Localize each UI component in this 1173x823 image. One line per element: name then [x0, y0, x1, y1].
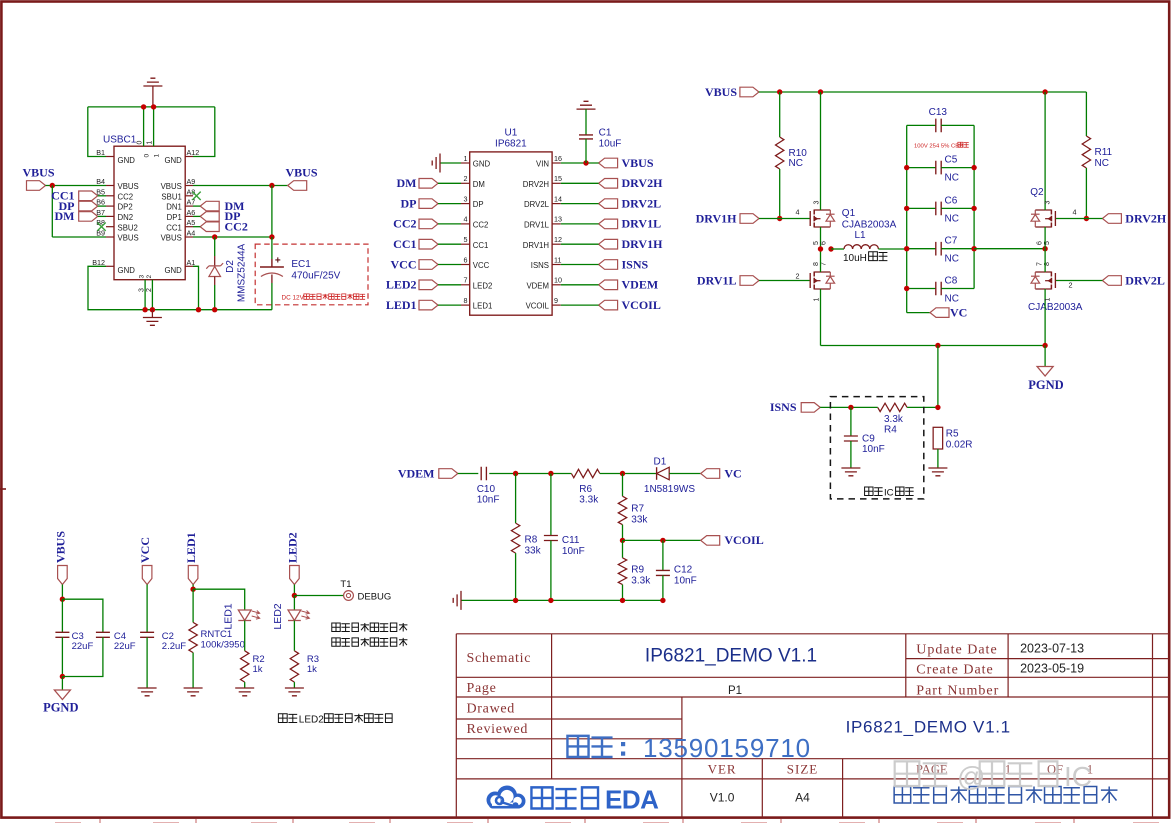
svg-text:VBUS: VBUS — [705, 85, 737, 99]
svg-text:VBUS: VBUS — [118, 234, 139, 243]
svg-text:B12: B12 — [92, 258, 105, 267]
svg-text:GND: GND — [118, 266, 136, 275]
svg-text:DEBUG: DEBUG — [358, 592, 392, 603]
svg-text:VBUS: VBUS — [22, 166, 54, 180]
svg-text:R4: R4 — [884, 424, 897, 435]
svg-text:USBC1: USBC1 — [103, 135, 137, 146]
svg-text:VCOIL: VCOIL — [526, 302, 550, 311]
svg-text:CC2: CC2 — [473, 221, 489, 230]
svg-text:VBUS: VBUS — [285, 166, 317, 180]
svg-text:2: 2 — [146, 288, 153, 292]
svg-text:P1: P1 — [728, 685, 742, 697]
svg-text:2: 2 — [464, 174, 468, 183]
svg-text:33k: 33k — [631, 515, 648, 526]
svg-text:CC2: CC2 — [225, 220, 248, 234]
svg-text:0: 0 — [144, 154, 151, 158]
svg-text:11: 11 — [554, 255, 561, 264]
svg-text:13590159710: 13590159710 — [643, 733, 811, 763]
svg-text:LED2: LED2 — [286, 532, 300, 563]
svg-text:EC1: EC1 — [291, 259, 311, 270]
svg-text:5: 5 — [1044, 241, 1051, 245]
svg-text:A8: A8 — [187, 187, 196, 196]
svg-text:C11: C11 — [562, 535, 580, 546]
svg-text:VDEM: VDEM — [622, 278, 659, 292]
svg-text:LED2: LED2 — [386, 278, 417, 292]
svg-text:C9: C9 — [862, 434, 875, 445]
svg-text:GND: GND — [473, 160, 491, 169]
svg-text:3: 3 — [139, 275, 146, 279]
svg-text:4: 4 — [1073, 208, 1077, 217]
svg-text:6: 6 — [821, 241, 828, 245]
svg-text:470uF/25V: 470uF/25V — [291, 270, 340, 281]
svg-text:B1: B1 — [96, 148, 105, 157]
svg-text:3: 3 — [139, 288, 146, 292]
svg-text:DRV2L: DRV2L — [622, 196, 662, 210]
svg-text:NC: NC — [945, 254, 959, 265]
svg-text:VCC: VCC — [391, 257, 417, 271]
svg-text:PGND: PGND — [43, 701, 78, 715]
svg-text:CC2: CC2 — [118, 192, 134, 201]
svg-text:10uF: 10uF — [599, 139, 622, 150]
svg-text:IP6821_DEMO V1.1: IP6821_DEMO V1.1 — [645, 646, 817, 667]
svg-text:A4: A4 — [187, 229, 196, 238]
svg-text:7: 7 — [821, 262, 828, 266]
svg-text:R9: R9 — [631, 565, 644, 576]
svg-text:VER: VER — [708, 762, 737, 777]
svg-text:DM: DM — [55, 209, 75, 223]
svg-text:14: 14 — [554, 194, 562, 203]
svg-text:A1: A1 — [187, 258, 196, 267]
svg-text:13: 13 — [554, 215, 562, 224]
svg-text:Q2: Q2 — [1030, 187, 1044, 198]
svg-text:DP1: DP1 — [167, 213, 182, 222]
svg-text:1: 1 — [814, 298, 821, 302]
svg-text:IC: IC — [884, 488, 894, 499]
svg-text:T1: T1 — [340, 579, 351, 590]
svg-text:D2: D2 — [225, 260, 236, 273]
svg-text:IP6821_DEMO V1.1: IP6821_DEMO V1.1 — [846, 718, 1011, 737]
svg-text:L1: L1 — [854, 230, 866, 241]
svg-text:VDEM: VDEM — [526, 281, 549, 290]
svg-text:16: 16 — [554, 154, 562, 163]
svg-text:+: + — [275, 256, 281, 267]
svg-text:Part Number: Part Number — [916, 684, 999, 699]
svg-text:A6: A6 — [187, 208, 196, 217]
svg-text:LED1: LED1 — [473, 302, 493, 311]
svg-text:CC1: CC1 — [473, 241, 489, 250]
svg-text:C8: C8 — [945, 276, 958, 287]
svg-text:10nF: 10nF — [862, 444, 885, 455]
svg-text:LED2: LED2 — [473, 281, 493, 290]
svg-text:DRV2L: DRV2L — [1125, 273, 1165, 287]
svg-text:NC: NC — [945, 213, 959, 224]
svg-text:3.3k: 3.3k — [884, 414, 904, 425]
svg-text:A9: A9 — [187, 177, 196, 186]
svg-text:VCC: VCC — [138, 537, 152, 563]
svg-text:10nF: 10nF — [477, 495, 500, 506]
svg-text:C7: C7 — [945, 236, 958, 247]
svg-text:VC: VC — [724, 466, 741, 480]
svg-text:8: 8 — [464, 296, 468, 305]
svg-text:MMSZ5244A: MMSZ5244A — [237, 243, 248, 302]
svg-text:5: 5 — [464, 235, 468, 244]
svg-text:2: 2 — [146, 275, 153, 279]
svg-text:C6: C6 — [945, 195, 958, 206]
svg-text:VBUS: VBUS — [161, 234, 182, 243]
svg-text:3: 3 — [1045, 201, 1052, 205]
svg-text:DN2: DN2 — [118, 213, 134, 222]
svg-text:DRV1H: DRV1H — [696, 211, 738, 225]
svg-text:C1: C1 — [599, 127, 612, 138]
svg-text:DRV1L: DRV1L — [622, 217, 662, 231]
svg-text:100k/3950: 100k/3950 — [201, 640, 245, 651]
svg-text:VIN: VIN — [536, 160, 549, 169]
svg-text:EDA: EDA — [605, 785, 659, 815]
svg-text:12: 12 — [554, 235, 562, 244]
svg-text:6: 6 — [464, 255, 468, 264]
svg-text:1k: 1k — [253, 664, 263, 675]
svg-text:2023-05-19: 2023-05-19 — [1020, 662, 1084, 676]
svg-text:DP: DP — [473, 200, 484, 209]
svg-text:Q1: Q1 — [842, 208, 856, 219]
svg-text:2: 2 — [796, 272, 800, 281]
svg-text:A4: A4 — [795, 791, 810, 805]
svg-text:22uF: 22uF — [114, 641, 136, 652]
svg-text:3: 3 — [464, 194, 468, 203]
svg-text:DRV2H: DRV2H — [523, 180, 549, 189]
svg-text:7: 7 — [1037, 262, 1044, 266]
svg-text:2.2uF: 2.2uF — [162, 641, 186, 652]
svg-text:R8: R8 — [525, 535, 538, 546]
svg-text:2: 2 — [1069, 281, 1073, 290]
svg-text:NC: NC — [789, 158, 803, 169]
svg-text:U1: U1 — [505, 127, 518, 138]
svg-text:2023-07-13: 2023-07-13 — [1020, 642, 1084, 656]
svg-text:DP2: DP2 — [118, 203, 133, 212]
svg-text:GND: GND — [164, 156, 182, 165]
svg-text:VDEM: VDEM — [398, 466, 435, 480]
svg-text:DRV2H: DRV2H — [1125, 211, 1167, 225]
svg-text:LED1: LED1 — [223, 603, 235, 629]
svg-text:DC 12V: DC 12V — [282, 295, 305, 302]
svg-text:4: 4 — [464, 215, 468, 224]
svg-text:C12: C12 — [674, 565, 693, 576]
svg-text:10: 10 — [554, 276, 562, 285]
svg-text:C5: C5 — [945, 155, 958, 166]
svg-text:DRV2L: DRV2L — [524, 200, 550, 209]
svg-text:1: 1 — [147, 141, 154, 145]
svg-text:A5: A5 — [187, 218, 196, 227]
svg-text:VBUS: VBUS — [622, 156, 654, 170]
svg-text:DRV1H: DRV1H — [523, 241, 549, 250]
svg-text:VCOIL: VCOIL — [622, 298, 661, 312]
svg-text:3.3k: 3.3k — [631, 576, 651, 587]
svg-text:CJAB2003A: CJAB2003A — [842, 220, 897, 231]
svg-text:DN1: DN1 — [166, 203, 182, 212]
svg-text:DRV2H: DRV2H — [622, 176, 664, 190]
svg-text:VBUS: VBUS — [118, 182, 139, 191]
svg-text:10nF: 10nF — [562, 546, 585, 557]
svg-text:5: 5 — [813, 241, 820, 245]
svg-text:CJAB2003A: CJAB2003A — [1028, 302, 1083, 313]
svg-text:ISNS: ISNS — [770, 400, 797, 414]
svg-text:Update Date: Update Date — [916, 643, 997, 658]
svg-text:LED2: LED2 — [299, 715, 324, 726]
svg-text:CC2: CC2 — [393, 217, 416, 231]
svg-text:22uF: 22uF — [72, 641, 94, 652]
svg-text:VBUS: VBUS — [161, 182, 182, 191]
svg-text:NC: NC — [945, 173, 959, 184]
svg-text:PGND: PGND — [1028, 378, 1063, 392]
svg-text:0.02R: 0.02R — [946, 440, 973, 451]
svg-text:R11: R11 — [1095, 147, 1113, 158]
svg-text:Reviewed: Reviewed — [467, 722, 529, 737]
svg-text:A12: A12 — [187, 148, 200, 157]
svg-text:3.3k: 3.3k — [579, 495, 599, 506]
svg-text:R5: R5 — [946, 429, 959, 440]
svg-text:3: 3 — [814, 201, 821, 205]
svg-text:Create Date: Create Date — [916, 663, 993, 678]
svg-text:R7: R7 — [631, 504, 644, 515]
svg-text:SBU1: SBU1 — [161, 192, 181, 201]
svg-text:1: 1 — [464, 154, 468, 163]
svg-text:1N5819WS: 1N5819WS — [644, 484, 695, 495]
svg-text:VBUS: VBUS — [54, 531, 68, 563]
svg-text:DRV1L: DRV1L — [697, 273, 737, 287]
svg-text:LED1: LED1 — [184, 532, 198, 563]
svg-text:DP: DP — [401, 196, 417, 210]
svg-text:15: 15 — [554, 174, 562, 183]
svg-text:NC: NC — [945, 294, 959, 305]
svg-text:33k: 33k — [525, 546, 542, 557]
svg-text:GND: GND — [118, 156, 136, 165]
svg-text:VCOIL: VCOIL — [724, 533, 763, 547]
svg-text:IC: IC — [1064, 761, 1092, 792]
svg-text:SIZE: SIZE — [787, 762, 818, 777]
svg-text:8: 8 — [813, 262, 820, 266]
svg-text:IP6821: IP6821 — [495, 139, 527, 150]
svg-text:4: 4 — [796, 208, 800, 217]
svg-text:1: 1 — [154, 154, 161, 158]
svg-text:C10: C10 — [477, 484, 496, 495]
svg-text:Schematic: Schematic — [467, 651, 532, 666]
svg-text:6: 6 — [1037, 241, 1044, 245]
svg-text:RNTC1: RNTC1 — [201, 629, 233, 640]
svg-text:ISNS: ISNS — [622, 257, 649, 271]
svg-text:ISNS: ISNS — [531, 261, 549, 270]
svg-text:R6: R6 — [579, 484, 592, 495]
svg-text:DM: DM — [473, 180, 485, 189]
svg-text:DM: DM — [397, 176, 417, 190]
svg-text:0: 0 — [137, 141, 144, 145]
svg-text:DRV1H: DRV1H — [622, 237, 664, 251]
svg-text:V1.0: V1.0 — [710, 791, 735, 805]
svg-text:LED2: LED2 — [272, 603, 284, 629]
svg-text:VCC: VCC — [473, 261, 490, 270]
svg-text:CC1: CC1 — [393, 237, 416, 251]
svg-text:10uH: 10uH — [843, 253, 867, 264]
svg-text:CC1: CC1 — [166, 223, 182, 232]
svg-text:Page: Page — [467, 681, 497, 696]
svg-text:100V 254 5% CBB: 100V 254 5% CBB — [914, 144, 963, 150]
svg-text:10nF: 10nF — [674, 576, 697, 587]
svg-text:Drawed: Drawed — [467, 702, 516, 717]
svg-text:9: 9 — [554, 296, 558, 305]
svg-text:VC: VC — [950, 305, 967, 319]
svg-text:SBU2: SBU2 — [118, 223, 138, 232]
svg-text:GND: GND — [164, 266, 182, 275]
svg-text:7: 7 — [464, 276, 468, 285]
svg-text:B4: B4 — [96, 177, 105, 186]
svg-text:LED1: LED1 — [386, 298, 417, 312]
svg-text:1: 1 — [1045, 298, 1052, 302]
svg-text:NC: NC — [1095, 158, 1109, 169]
svg-text:@: @ — [957, 761, 985, 792]
svg-text:C13: C13 — [929, 107, 948, 118]
svg-text:DRV1L: DRV1L — [524, 221, 550, 230]
svg-text:1k: 1k — [307, 664, 317, 675]
svg-text:D1: D1 — [654, 457, 667, 468]
